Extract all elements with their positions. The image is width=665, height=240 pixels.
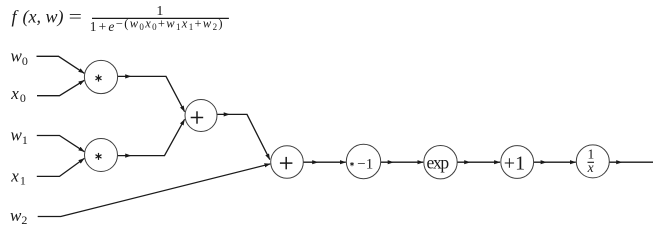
svg-text:+1: +1: [504, 153, 525, 175]
formula fraction bar: [92, 17, 229, 19]
wire exp to plus1: [457, 160, 500, 164]
wire add2 to mulneg1: [303, 160, 345, 164]
multiply-by-minus-one node: [346, 144, 380, 178]
wire plus1 to inv: [534, 160, 576, 164]
svg-text:exp: exp: [427, 153, 450, 173]
svg-text:−(w0x0+w1x1+w2): −(w0x0+w1x1+w2): [116, 17, 223, 33]
wire mul1 to add1: [118, 74, 185, 111]
svg-text:(x, w): (x, w): [23, 7, 64, 28]
exp node: [424, 146, 457, 179]
wire w2 to add2: [38, 164, 271, 217]
wire x1 to mul2: [37, 158, 85, 176]
one-over-x node: [576, 145, 609, 178]
add node add1: [185, 100, 217, 132]
wire add1 to add2: [217, 112, 270, 159]
multiply node mul2: [85, 139, 118, 172]
svg-text:1+e: 1+e: [90, 19, 115, 34]
svg-text:=: =: [69, 7, 82, 27]
wire w0 to mul1: [37, 56, 85, 73]
plus-one node: [501, 146, 534, 179]
svg-text:−1: −1: [357, 157, 373, 173]
wire w1 to mul2: [37, 136, 85, 152]
wire x0 to mul1: [37, 80, 84, 95]
wire inv to output: [609, 160, 653, 164]
svg-text:x: x: [587, 160, 594, 175]
wire mulneg1 to exp: [381, 160, 423, 164]
multiply node mul1: [84, 60, 117, 93]
formula f(x,w) left-hand side: [12, 7, 82, 28]
wire mul2 to add1: [118, 119, 185, 157]
add node add2: [271, 146, 304, 179]
